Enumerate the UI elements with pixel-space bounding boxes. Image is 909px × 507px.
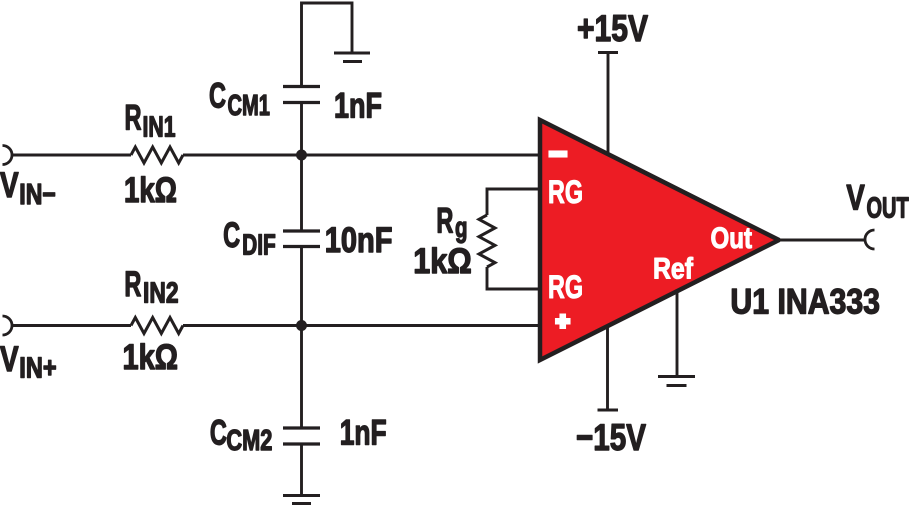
svg-text:g: g	[455, 212, 468, 244]
terminal V_OUT	[865, 230, 874, 249]
svg-text:RG: RG	[548, 269, 583, 305]
svg-text:CM1: CM1	[228, 90, 271, 122]
pin label plus (non-inverting input)	[556, 314, 571, 329]
wire: op-amp negative rail to -15V supply	[606, 320, 609, 410]
svg-text:CM2: CM2	[226, 425, 272, 457]
label V_IN+	[0, 340, 57, 385]
capacitor C_CM1	[283, 87, 320, 103]
wire: V_IN+ terminal to R_IN2	[12, 324, 131, 327]
svg-text:RG: RG	[548, 174, 583, 210]
label C_CM1	[209, 77, 270, 122]
svg-text:Ref: Ref	[653, 253, 693, 286]
svg-text:DIF: DIF	[242, 230, 276, 262]
capacitor C_CM2	[283, 428, 320, 444]
pin label minus (inverting input)	[549, 151, 567, 157]
wire: op-amp output to V_OUT terminal	[777, 239, 865, 242]
svg-text:R: R	[125, 99, 142, 138]
capacitor C_DIF	[283, 231, 320, 247]
wire: C_CM2 to bottom ground	[300, 444, 303, 496]
wire: R_IN1 to op-amp inverting input	[183, 154, 542, 157]
label C_DIF	[223, 216, 276, 262]
supply bar +15V	[598, 51, 618, 54]
svg-text:IN+: IN+	[19, 353, 56, 385]
svg-text:V: V	[846, 179, 865, 218]
resistor Rg	[479, 215, 495, 267]
ground (Ref pin)	[658, 377, 695, 386]
junction node (V_IN- / C_CM1 / C_DIF)	[296, 150, 307, 161]
svg-text:C: C	[223, 216, 240, 255]
label V_IN-	[0, 166, 56, 211]
wire: upper RG pin stub to Rg	[487, 189, 542, 215]
svg-text:R: R	[436, 202, 453, 241]
svg-text:1kΩ: 1kΩ	[413, 242, 472, 281]
terminal V_IN-	[3, 146, 13, 165]
ground (top, above op-amp area)	[334, 53, 370, 62]
svg-text:IN1: IN1	[143, 112, 176, 144]
svg-text:V: V	[0, 166, 19, 205]
svg-text:1nF: 1nF	[340, 414, 387, 453]
svg-text:R: R	[124, 265, 141, 304]
label R_IN1	[125, 99, 176, 144]
wire: vertical bus C_CM1 to C_DIF	[300, 103, 303, 232]
svg-text:C: C	[210, 414, 227, 453]
wire: vertical bus C_DIF to C_CM2	[300, 247, 303, 429]
svg-text:1kΩ: 1kΩ	[123, 338, 179, 377]
svg-text:Out: Out	[711, 222, 753, 255]
wire: R_IN2 to op-amp non-inverting input	[183, 324, 542, 327]
wire: Rg to lower RG pin stub	[487, 267, 542, 289]
svg-text:IN−: IN−	[19, 179, 56, 211]
wire: V_IN- terminal to R_IN1	[12, 154, 131, 157]
svg-text:IN2: IN2	[143, 278, 179, 310]
svg-text:−15V: −15V	[576, 416, 646, 458]
svg-text:OUT: OUT	[867, 192, 909, 224]
resistor R_IN1	[131, 147, 183, 163]
svg-text:1nF: 1nF	[334, 86, 382, 125]
resistor R_IN2	[131, 318, 183, 334]
svg-text:V: V	[0, 340, 19, 379]
wire: Ref pin to ground	[676, 285, 679, 377]
terminal V_IN+	[3, 316, 13, 335]
label Rg	[436, 202, 467, 244]
svg-text:U1 INA333: U1 INA333	[730, 282, 880, 321]
svg-text:10nF: 10nF	[325, 221, 393, 260]
svg-text:+15V: +15V	[577, 7, 648, 49]
wire: C_CM1 top plate up and over to ground	[302, 3, 353, 88]
label V_OUT	[846, 179, 909, 225]
wire: op-amp output stub at apex	[778, 239, 800, 242]
label R_IN2	[124, 265, 178, 310]
ground (bottom, below C_CM2)	[283, 496, 320, 504]
svg-text:C: C	[209, 77, 226, 116]
junction node (V_IN+ / C_DIF / C_CM2)	[296, 320, 307, 331]
label C_CM2	[210, 414, 273, 458]
svg-text:1kΩ: 1kΩ	[124, 171, 177, 210]
wire: +15V supply to op-amp positive rail	[607, 53, 610, 161]
op-amp U1 INA333 triangle	[540, 120, 779, 360]
supply bar -15V	[598, 409, 619, 412]
